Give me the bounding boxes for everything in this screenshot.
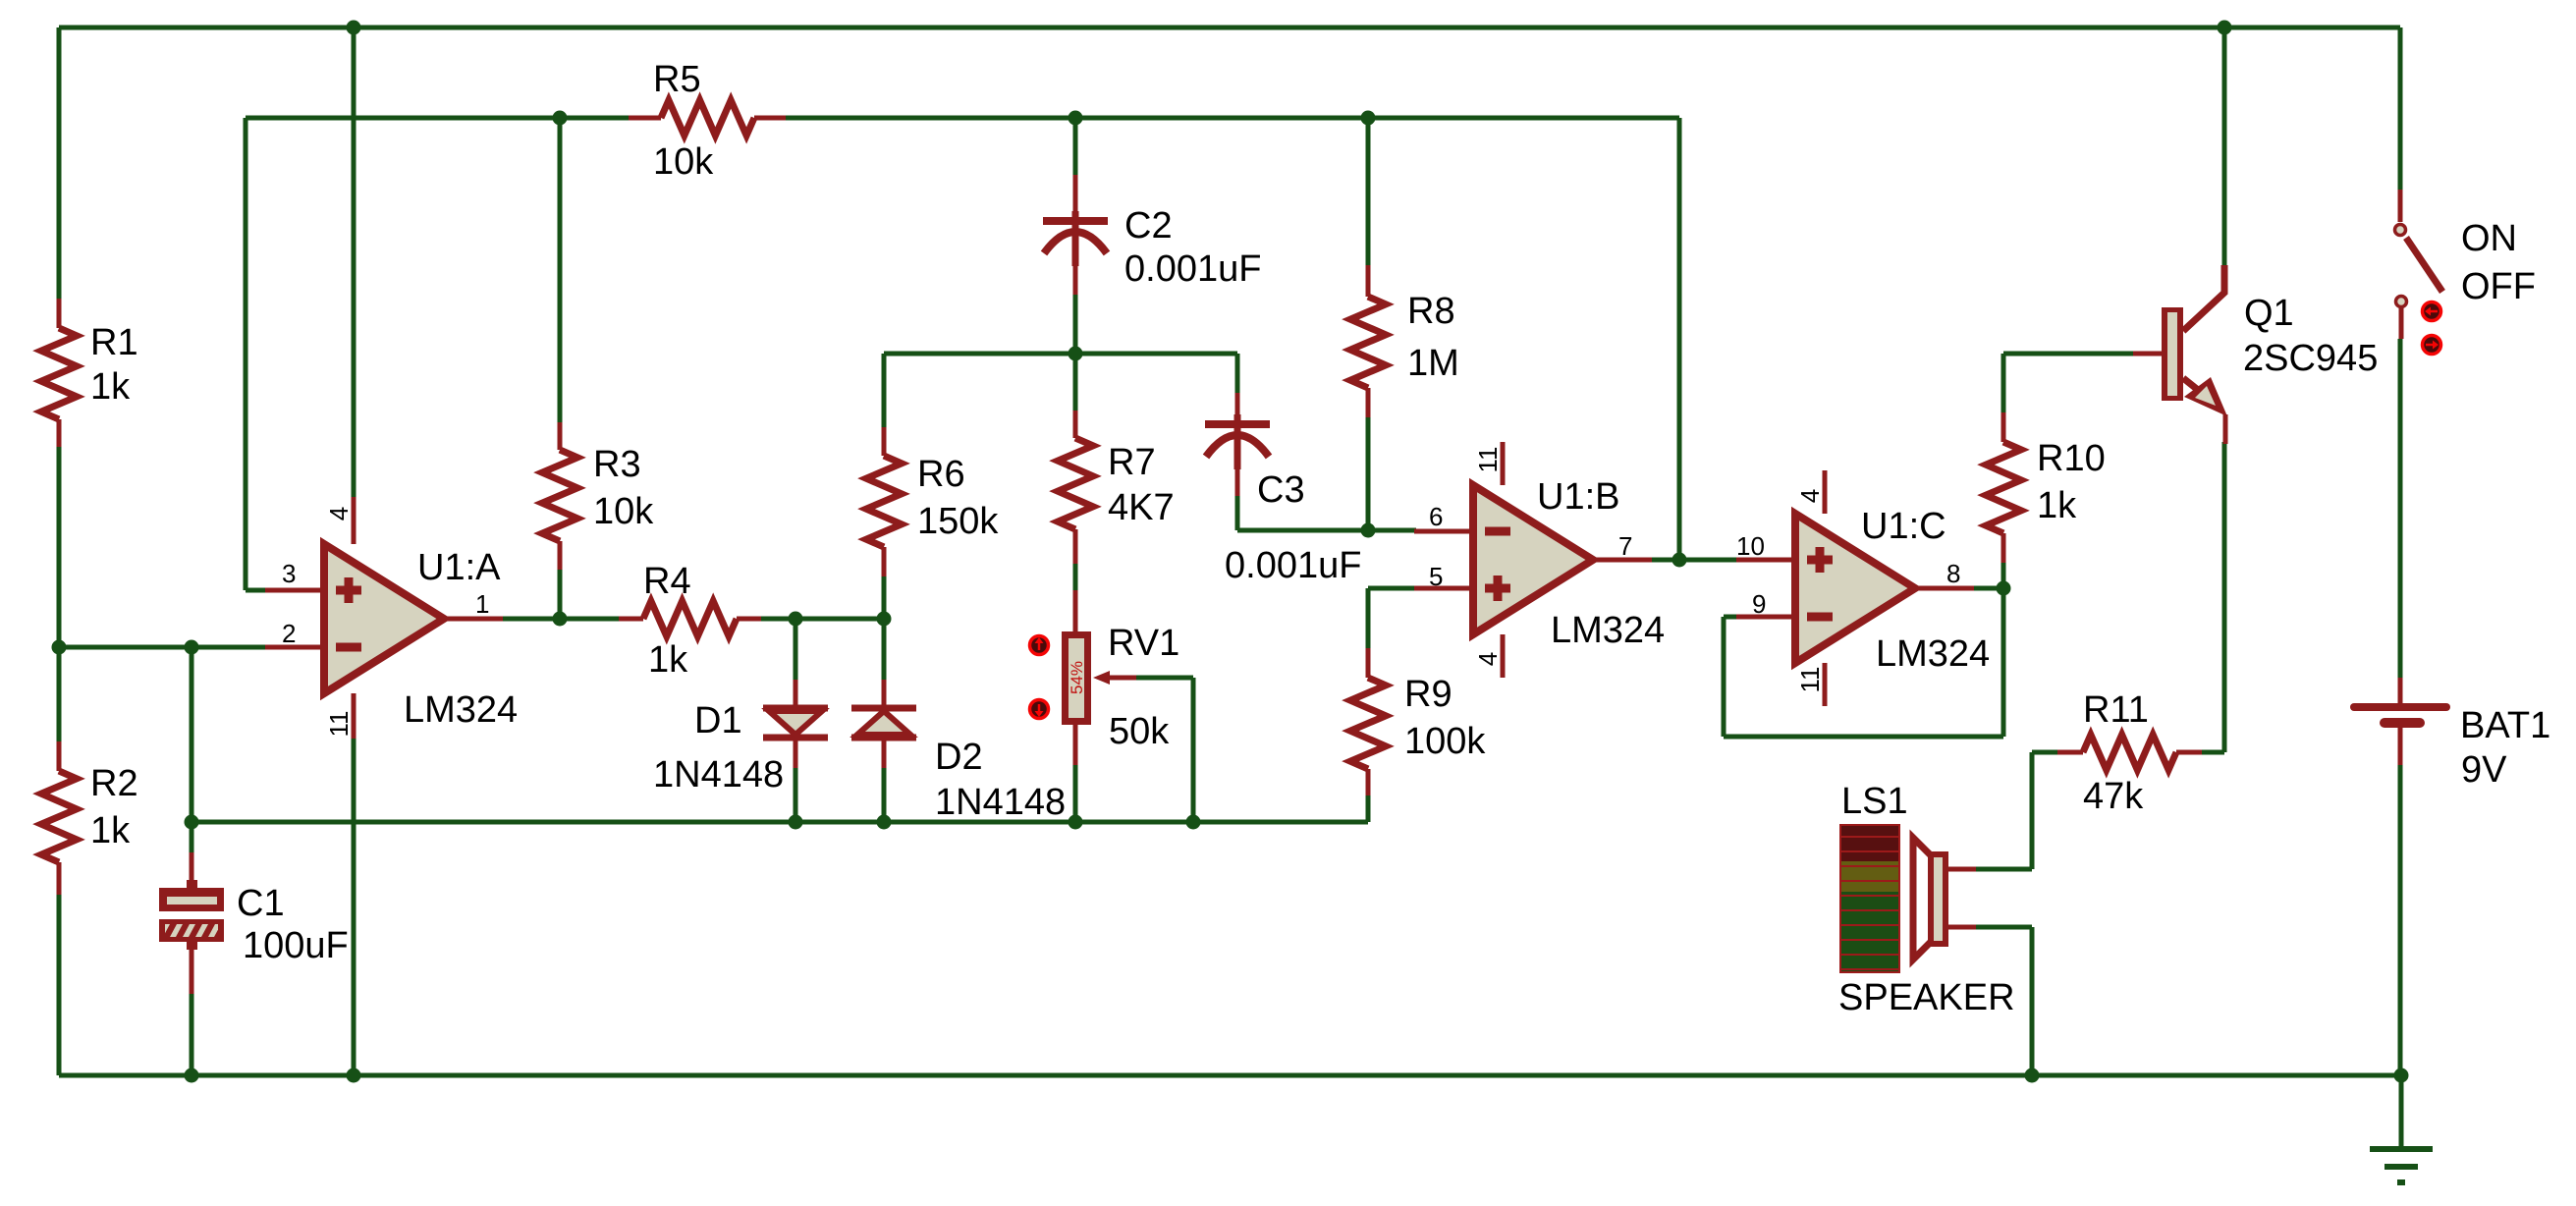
svg-text:1N4148: 1N4148 bbox=[935, 782, 1066, 823]
svg-text:1: 1 bbox=[475, 589, 489, 619]
svg-text:9V: 9V bbox=[2461, 749, 2507, 791]
svg-text:3: 3 bbox=[282, 559, 296, 588]
svg-text:R4: R4 bbox=[643, 561, 691, 602]
svg-text:C3: C3 bbox=[1257, 469, 1305, 511]
svg-text:11: 11 bbox=[324, 711, 354, 738]
svg-text:7: 7 bbox=[1618, 531, 1632, 561]
svg-text:LS1: LS1 bbox=[1841, 781, 1908, 822]
svg-text:0.001uF: 0.001uF bbox=[1124, 248, 1261, 290]
svg-text:R6: R6 bbox=[917, 454, 965, 495]
svg-text:10k: 10k bbox=[653, 141, 714, 183]
svg-text:RV1: RV1 bbox=[1108, 623, 1179, 664]
svg-text:50k: 50k bbox=[1109, 711, 1170, 752]
svg-text:U1:B: U1:B bbox=[1537, 476, 1619, 518]
svg-text:11: 11 bbox=[1473, 447, 1503, 473]
svg-text:150k: 150k bbox=[917, 501, 999, 542]
svg-text:6: 6 bbox=[1429, 502, 1443, 531]
svg-text:10k: 10k bbox=[593, 491, 654, 532]
svg-text:1k: 1k bbox=[648, 639, 688, 681]
svg-text:BAT1: BAT1 bbox=[2460, 705, 2550, 746]
svg-text:LM324: LM324 bbox=[1876, 633, 1990, 675]
svg-text:4: 4 bbox=[324, 507, 354, 521]
svg-text:10: 10 bbox=[1736, 531, 1765, 561]
svg-text:ON: ON bbox=[2461, 218, 2517, 259]
svg-text:U1:A: U1:A bbox=[417, 547, 501, 588]
svg-text:4: 4 bbox=[1795, 489, 1825, 503]
svg-text:R5: R5 bbox=[653, 59, 701, 100]
svg-text:U1:C: U1:C bbox=[1861, 506, 1946, 547]
svg-text:2: 2 bbox=[282, 619, 296, 648]
svg-text:11: 11 bbox=[1795, 667, 1825, 693]
svg-text:LM324: LM324 bbox=[404, 689, 518, 731]
svg-text:9: 9 bbox=[1752, 589, 1766, 619]
svg-text:47k: 47k bbox=[2083, 776, 2144, 817]
svg-text:SPEAKER: SPEAKER bbox=[1838, 977, 2015, 1018]
svg-text:1k: 1k bbox=[2037, 485, 2077, 526]
svg-text:4K7: 4K7 bbox=[1108, 487, 1175, 528]
svg-text:R10: R10 bbox=[2037, 438, 2106, 479]
svg-text:100k: 100k bbox=[1404, 721, 1486, 762]
svg-text:OFF: OFF bbox=[2461, 266, 2536, 307]
svg-text:R3: R3 bbox=[593, 444, 641, 485]
svg-text:1M: 1M bbox=[1407, 343, 1459, 384]
svg-text:0.001uF: 0.001uF bbox=[1225, 545, 1361, 586]
svg-text:5: 5 bbox=[1429, 562, 1443, 591]
svg-text:R1: R1 bbox=[90, 322, 138, 363]
svg-text:1N4148: 1N4148 bbox=[653, 754, 784, 795]
svg-text:R9: R9 bbox=[1404, 674, 1452, 715]
svg-text:D1: D1 bbox=[694, 700, 742, 741]
svg-text:C2: C2 bbox=[1124, 205, 1173, 247]
svg-text:D2: D2 bbox=[935, 737, 983, 778]
svg-text:LM324: LM324 bbox=[1551, 610, 1665, 651]
svg-text:Q1: Q1 bbox=[2244, 293, 2294, 334]
svg-text:1k: 1k bbox=[90, 366, 131, 408]
svg-text:1k: 1k bbox=[90, 810, 131, 851]
svg-text:54%: 54% bbox=[1068, 661, 1086, 694]
svg-text:R2: R2 bbox=[90, 763, 138, 804]
svg-text:C1: C1 bbox=[237, 883, 285, 924]
svg-text:R8: R8 bbox=[1407, 291, 1455, 332]
svg-text:R7: R7 bbox=[1108, 442, 1156, 483]
svg-text:100uF: 100uF bbox=[243, 925, 349, 966]
svg-text:R11: R11 bbox=[2083, 689, 2149, 731]
svg-text:4: 4 bbox=[1473, 652, 1503, 666]
svg-text:8: 8 bbox=[1946, 559, 1960, 588]
svg-text:2SC945: 2SC945 bbox=[2243, 338, 2378, 379]
